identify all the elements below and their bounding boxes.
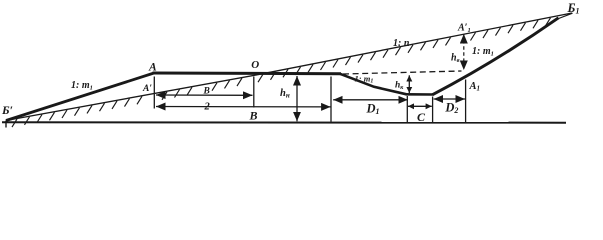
dimension B (A' to O) [156,94,253,96]
extension line below O [253,77,255,108]
extension line ditch right [432,97,434,123]
svg-text:С: С [417,110,426,124]
dimension D1 [333,99,408,101]
ground hatch marks [12,18,551,127]
svg-text:hв: hв [451,53,460,65]
roadbed platform A-O-edge [153,72,342,76]
svg-text:hн: hн [280,88,290,100]
svg-text:В: В [203,87,210,97]
svg-text:Б1: Б1 [567,1,580,16]
svg-text:А′1: А′1 [457,23,471,35]
dashed grade line extension [343,71,462,74]
embankment left slope Б'-A (1:m1) [6,73,154,121]
inner ditch slope [340,74,407,95]
dimension C [408,105,432,107]
svg-text:D2: D2 [444,101,458,116]
svg-text:А: А [148,62,157,74]
ditch bottom [406,93,433,96]
svg-text:1: n: 1: n [393,38,410,49]
extension line ditch left [406,96,408,122]
svg-text:А′: А′ [142,84,152,94]
svg-text:hк: hк [395,81,404,92]
svg-text:2: 2 [204,102,211,113]
svg-text:В: В [249,109,258,123]
svg-text:D1: D1 [366,102,380,117]
svg-text:А1: А1 [469,81,481,93]
dimension D2 [434,98,465,100]
ground line Б' to O [6,75,257,121]
svg-text:1: m1: 1: m1 [472,46,494,58]
tick at left end of baseline [5,121,7,128]
extension line below A1 [465,80,467,123]
extension line below A [153,77,155,109]
extension line below platform edge [330,77,332,122]
svg-text:О: О [251,59,259,71]
baseline (datum line at bottom) [2,121,566,123]
dimension 2 (A' to edge) [156,106,331,108]
cut slope to Б1 (1:m1) [433,18,559,95]
height h_v arrow [463,34,465,70]
svg-text:1: m1: 1: m1 [355,74,374,85]
ground line O to Б1 (slope 1:n) [257,13,572,75]
svg-text:Б′: Б′ [1,103,13,117]
svg-text:1: m1: 1: m1 [71,80,93,92]
height h_n arrow [296,76,298,121]
ground line tail to Б1 [556,13,573,19]
height h_k arrow [408,75,410,93]
